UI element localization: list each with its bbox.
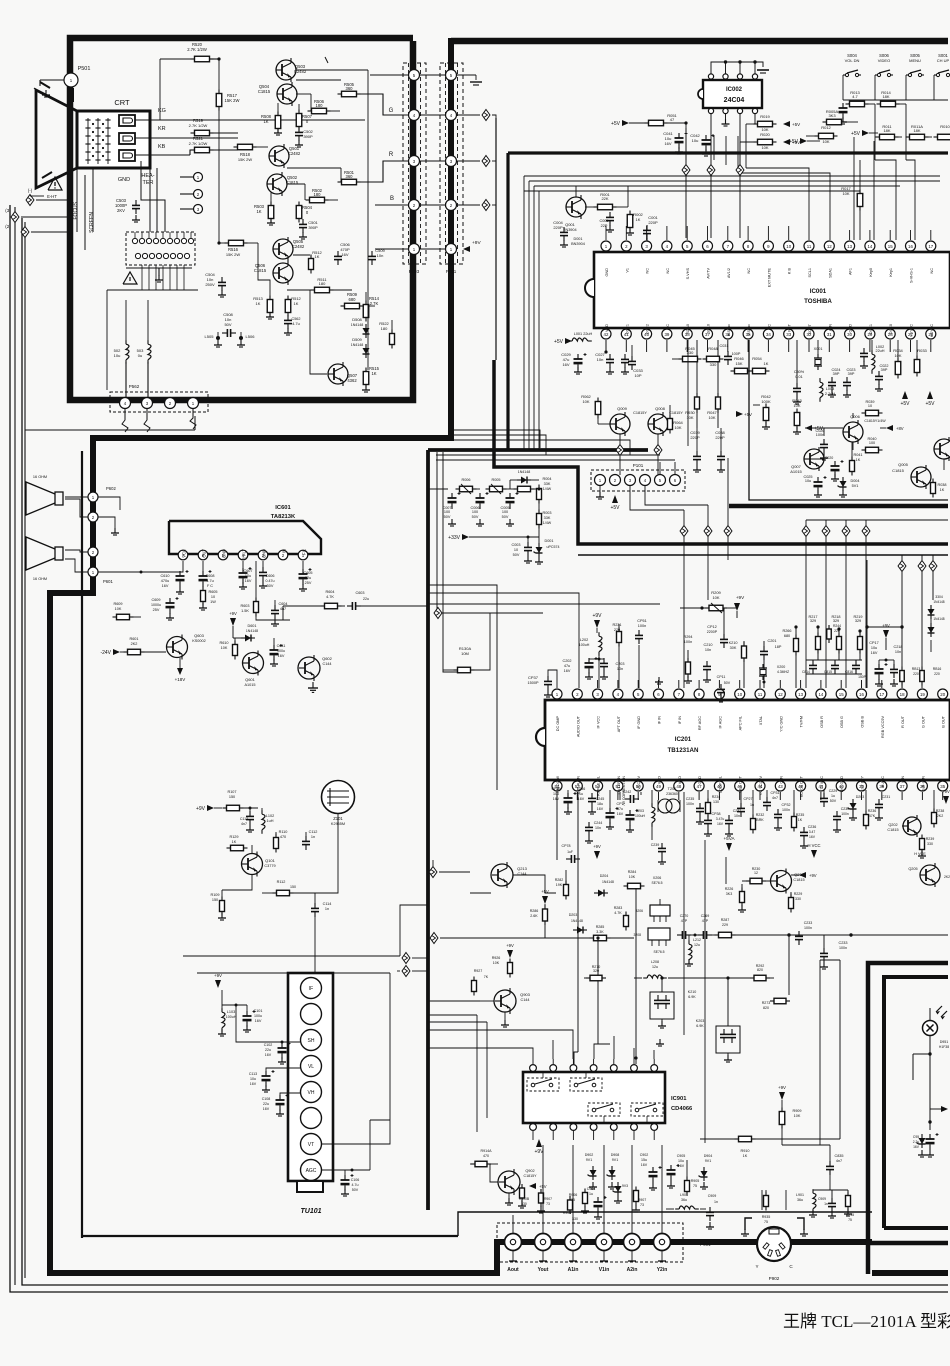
wire v636 [634,888,637,1064]
inductor L505 [205,332,222,347]
svg-text:R284: R284 [628,870,637,874]
svg-text:OSC1: OSC1 [869,324,873,334]
svg-text:Y IN: Y IN [901,776,905,784]
svg-text:10n: 10n [705,648,711,652]
resistor R007 [514,486,540,492]
capacitor C101 [243,1005,263,1032]
svg-text:16V: 16V [578,797,585,801]
resistor R038 [931,479,947,498]
capacitor C006 [470,492,488,526]
svg-text:+9V: +9V [593,844,601,849]
crt gun KR [119,133,135,144]
svg-text:10u: 10u [678,1159,684,1163]
svg-text:VH: VH [308,1090,315,1096]
svg-text:25V: 25V [153,608,160,612]
svg-text:R609: R609 [113,602,122,606]
svg-text:10u: 10u [553,792,559,796]
wire v708 [704,505,712,600]
svg-text:150: 150 [229,795,235,799]
svg-text:F C: F C [207,584,213,588]
wire switch gnd rail [839,100,949,124]
capacitor C246 [577,787,596,814]
svg-text:75: 75 [848,1218,852,1222]
svg-text:TU101: TU101 [300,1208,321,1215]
connector P503 pin3 [409,156,420,167]
resistor R206 [651,876,662,885]
svg-text:1/4W: 1/4W [543,521,552,525]
svg-text:G OUT: G OUT [921,715,925,728]
svg-text:Q009: Q009 [617,406,628,411]
power +5V col1 [900,391,910,407]
resistor R041 [850,442,863,476]
connector P901 pin6 [654,1234,671,1274]
svg-text:10K: 10K [842,191,849,196]
capacitor C005 [599,212,614,232]
svg-text:K210: K210 [729,641,738,645]
resistor R609 [113,602,142,620]
svg-text:19: 19 [920,692,925,697]
svg-text:L203: L203 [636,809,644,813]
svg-text:12u: 12u [694,943,700,947]
wire v726 [725,857,727,884]
resistor R217 [808,615,820,660]
svg-text:250V: 250V [205,282,215,287]
connector P101 pin2 [610,475,621,512]
ground IC002 pin2 [722,114,730,126]
resistor R506 [296,94,340,114]
transistor Q903 [494,988,531,1014]
svg-text:2N3904: 2N3904 [563,228,576,232]
svg-text:11: 11 [758,692,763,697]
svg-text:16: 16 [859,692,864,697]
wire v840 [782,960,840,1139]
wire q902 base [490,1164,513,1205]
page frame inner [22,218,948,1285]
svg-text:P901: P901 [700,1242,711,1247]
svg-text:4.7u: 4.7u [352,1183,359,1187]
ic IC901 body [523,1072,693,1123]
resistor R926 [492,956,513,978]
wire row R out [456,160,480,162]
tuner TU101 [288,973,333,1192]
transistor Q001 [563,195,586,232]
svg-text:680: 680 [784,634,790,638]
svg-text:R273: R273 [762,1001,771,1005]
wire bundle h5 [436,459,675,461]
resistor R239 [918,835,934,859]
ic IC201 bottom pins [552,781,948,791]
wire h 960 right [820,959,840,961]
svg-text:R286: R286 [530,909,539,913]
svg-text:R234: R234 [712,795,721,799]
connector P101 box [591,463,685,491]
svg-text:9V1: 9V1 [705,1159,711,1163]
wire row5 [370,74,446,76]
svg-text:R019: R019 [760,114,770,119]
svg-text:L212: L212 [693,938,701,942]
resistor R014 [877,90,907,107]
transistor Q101 [242,852,276,877]
capacitor C112 [302,830,317,850]
wire bundle h4 [436,454,660,456]
resistor R230 [742,867,770,884]
wire row R [375,161,446,182]
svg-text:10n: 10n [597,357,604,362]
svg-text:15K 2W: 15K 2W [226,252,240,257]
svg-text:SDA1: SDA1 [828,268,832,278]
svg-text:A1015: A1015 [790,469,802,474]
svg-text:30K: 30K [730,646,737,650]
connector P902 bracket L [741,1218,752,1236]
capacitor C005b [500,492,518,526]
svg-text:13: 13 [847,244,852,249]
jumper ic201 19 [918,555,937,600]
ground pin5 [655,677,663,684]
capacitor C042 [690,133,714,156]
ic sub-box Q005 Q006 [749,340,948,500]
resistor R013 [846,90,876,107]
jumper d3 [736,164,744,238]
connector P902 bracket R [797,1218,808,1236]
capacitor C106 [341,1170,360,1196]
svg-text:R909: R909 [792,1109,801,1113]
svg-text:S-VHS-1: S-VHS-1 [910,268,914,283]
svg-text:50V: 50V [513,553,520,557]
svg-text:15: 15 [839,692,844,697]
svg-text:H VCE: H VCE [914,852,926,856]
svg-text:0.01: 0.01 [795,375,802,379]
wire KB [135,150,238,155]
svg-text:R110: R110 [279,830,288,834]
svg-text:16V: 16V [664,141,671,146]
svg-text:R285: R285 [596,925,605,929]
svg-text:P601: P601 [103,579,113,584]
svg-text:MENU: MENU [909,58,921,63]
ic IC901 bottom pins [530,1124,658,1140]
transistor Q008 [648,406,683,475]
svg-text:C3779: C3779 [264,864,275,868]
svg-text:RF AGC: RF AGC [698,716,702,730]
control block border top [508,151,948,154]
wire audio misc [98,497,120,510]
svg-text:VSYNC: VSYNC [910,324,914,337]
label TU101 [300,1208,321,1215]
svg-text:1K: 1K [294,301,299,306]
svg-text:GND: GND [605,268,609,277]
svg-text:470: 470 [483,1154,489,1158]
crt funnel [34,88,77,188]
wire v705 [704,840,706,1143]
crt anode cable [69,88,74,102]
transistor Q602 [298,655,333,681]
connector P901 box [497,1223,711,1262]
wire v684 low [683,792,685,1035]
svg-text:IC201: IC201 [675,736,692,743]
svg-text:39P: 39P [881,368,888,372]
label P201 [446,269,457,274]
label KB [158,144,166,150]
caption [783,1312,950,1331]
svg-text:C218: C218 [893,645,902,649]
svg-text:R935: R935 [762,1215,771,1219]
connector (R) out [482,156,496,167]
svg-text:RB16: RB16 [933,667,942,671]
svg-text:D001: D001 [573,237,582,241]
label P602 [106,486,116,491]
wire IC001 top stubs right [850,230,931,240]
svg-text:C IN: C IN [779,776,783,784]
resistor R202 [555,870,569,900]
svg-text:13: 13 [798,692,803,697]
label KR [158,126,166,132]
power +18V [175,658,186,682]
potentiometer R006 [456,478,481,494]
wire bus h1 [524,175,940,177]
resistor R292 [750,964,774,981]
power +5V sda rail [789,138,820,145]
svg-text:GND: GND [222,549,227,558]
diode stack D211 [928,595,945,619]
connector P601 pin1 [65,559,98,577]
svg-text:R033: R033 [917,348,927,353]
connector P201 pin3 [446,156,457,167]
wire thick P201 bus [50,38,451,1271]
svg-text:(2): (2) [5,224,11,229]
resistor R516 [217,240,258,257]
remote block inner border [884,977,948,1228]
svg-text:+9V: +9V [942,789,950,794]
svg-text:C244: C244 [594,821,603,825]
svg-text:10K: 10K [761,145,768,150]
crystal X200 [759,664,789,684]
svg-text:C031: C031 [719,344,728,348]
svg-text:33K: 33K [544,516,551,520]
crt electrodes [85,118,110,164]
svg-text:VCO: VCO [658,776,662,784]
connector P101 pin6 [670,462,681,486]
connector P201 pin1 [446,244,457,255]
svg-text:16V: 16V [564,669,571,673]
svg-text:36u: 36u [797,1198,803,1202]
diode D004 [838,477,860,497]
svg-text:1K: 1K [798,818,803,822]
svg-text:DIG GND: DIG GND [840,776,844,793]
filter X206b [633,928,670,954]
svg-text:C144: C144 [520,998,529,1002]
svg-text:VDD: VDD [605,324,609,332]
svg-text:D904: D904 [704,1154,713,1158]
wire left margin 1 [14,207,16,1285]
svg-text:R226: R226 [725,887,734,891]
svg-text:BN3904: BN3904 [571,242,585,246]
wire r042 link [753,404,760,406]
ic IC601 body [169,505,321,554]
svg-text:1K: 1K [743,1154,748,1158]
svg-text:11: 11 [807,244,812,249]
svg-text:16 OHM: 16 OHM [33,475,47,479]
power +5V col2 [925,391,935,407]
power +9V q202 [942,789,950,804]
resistor R935 [762,1190,771,1224]
svg-text:D509: D509 [352,337,362,342]
capacitor C607 [239,561,253,589]
wire screen [92,168,94,232]
connector P902 [757,1227,791,1281]
svg-text:180: 180 [381,326,388,331]
svg-text:16V: 16V [809,835,816,839]
wire keys drop [875,104,915,240]
wire ic201 in4 [434,612,543,614]
transistor Q005 [892,462,931,489]
resistor R046 [731,356,759,374]
resistor R601 [124,637,167,655]
svg-text:3.3K: 3.3K [596,930,604,934]
svg-text:C236: C236 [808,825,817,829]
svg-text:2.7K 1/2W: 2.7K 1/2W [187,47,207,52]
resistor R512 [284,296,302,336]
svg-text:236360: 236360 [666,792,678,796]
jumper ic201 top 1 [802,520,810,688]
svg-text:C235: C235 [686,797,695,801]
svg-text:AGC: AGC [306,1168,317,1174]
svg-text:50V: 50V [444,515,451,519]
ic IC901 top pins [530,1059,658,1071]
connector P101 pin1 [595,475,606,500]
svg-text:39P: 39P [848,372,855,376]
capacitor C610 [160,570,188,594]
svg-text:KR: KR [158,126,166,132]
wire y627 [865,625,902,628]
svg-text:4n7: 4n7 [241,822,247,826]
svg-text:1K: 1K [232,840,237,844]
ic IC001 bottom pins [601,329,936,339]
svg-text:D006: D006 [519,465,528,469]
svg-text:C1815: C1815 [887,828,898,832]
svg-text:18P: 18P [775,645,782,649]
jumper ic201 top 4 [862,520,870,688]
svg-text:Key0: Key0 [869,268,873,277]
svg-text:R914A: R914A [481,1149,493,1153]
svg-text:SCREEN: SCREEN [89,212,95,233]
wire ic201 in2 [428,593,579,688]
wire thick bottom frame mid [494,1239,872,1245]
power +5V mid [541,889,549,908]
resistor R011A [906,124,933,140]
svg-text:CD4066: CD4066 [671,1106,693,1112]
power +8V q006 [880,425,904,431]
svg-text:KS0002: KS0002 [192,639,206,643]
resistor R502 [287,184,338,203]
svg-text:2.2uH: 2.2uH [825,392,835,396]
svg-text:1n: 1n [824,1202,828,1206]
svg-text:20: 20 [940,692,945,697]
capacitor C505 [334,242,351,265]
svg-text:16V: 16V [245,579,252,583]
svg-text:220P: 220P [553,225,563,230]
svg-text:AFT OUT: AFT OUT [617,715,621,732]
svg-text:+5V: +5V [541,889,549,894]
resistor R005A [823,109,859,125]
resistor R511 [287,277,352,293]
crt socket [126,232,195,265]
resistor R043 [792,398,802,434]
capacitor C039 [690,428,701,472]
capacitor C235 [686,797,704,824]
svg-text:FOCUS: FOCUS [73,201,79,219]
svg-text:C905: C905 [677,1154,686,1158]
connector P901 pin3 [565,1234,582,1274]
svg-text:P902: P902 [769,1276,780,1281]
diode D908 [607,1153,620,1189]
svg-text:100: 100 [502,510,508,514]
svg-text:2KV: 2KV [117,208,125,213]
svg-text:(3): (3) [5,208,11,213]
resistor R505 [296,80,375,97]
svg-text:L506: L506 [246,334,256,339]
svg-text:VCC: VCC [182,549,187,558]
inductor L902 [666,1193,706,1209]
svg-text:+9V: +9V [592,613,602,619]
svg-text:4.7K: 4.7K [614,911,622,915]
wire Q505 net [258,243,310,299]
svg-text:Y2in: Y2in [657,1267,668,1273]
wire to tuner IF [314,917,316,972]
capacitor C202 [562,657,597,679]
power H VCC [807,843,820,858]
svg-text:17: 17 [879,692,884,697]
wire v557 [556,792,558,860]
wire ic201 left v2 [443,452,457,672]
capacitor C020 [825,456,844,481]
svg-text:16V: 16V [255,1019,262,1023]
svg-text:R041: R041 [853,453,862,457]
svg-text:C202: C202 [562,659,571,663]
svg-text:12u: 12u [652,965,658,969]
svg-text:CP31: CP31 [771,791,780,795]
resistor R520 [160,42,221,62]
svg-text:SCL0: SCL0 [707,324,711,334]
svg-text:VL: VL [308,1064,314,1070]
wire bundle h1 [449,430,540,448]
svg-text:1K: 1K [856,458,861,462]
wire caps row [806,660,862,674]
svg-text:1500P: 1500P [528,681,539,685]
svg-text:330: 330 [710,362,717,367]
resistor R047 [707,340,720,428]
ground P201 top [456,75,482,85]
svg-text:IC002: IC002 [726,87,743,93]
svg-text:D004: D004 [850,479,859,483]
svg-text:L901: L901 [796,1193,804,1197]
wire row G out [456,114,480,116]
capacitor C231 [875,795,890,820]
resistor R229 [789,892,803,913]
svg-text:16V: 16V [250,1082,257,1086]
svg-text:1K: 1K [256,301,261,306]
wire ic901 feed h [428,1030,530,1048]
wire ic901 top nets [492,1030,664,1059]
svg-text:R266: R266 [782,629,791,633]
ic IC201 pin51 label2 [622,776,626,806]
svg-text:47K: 47K [869,814,876,818]
svg-text:Q006: Q006 [850,414,861,419]
jumper (2) mid [0,0,1,1]
svg-text:GND: GND [118,177,130,183]
resistor R003 [537,501,552,529]
resistor R064 [668,405,684,434]
svg-text:22uH: 22uH [875,349,884,353]
svg-text:LINTER IN: LINTER IN [617,776,621,795]
